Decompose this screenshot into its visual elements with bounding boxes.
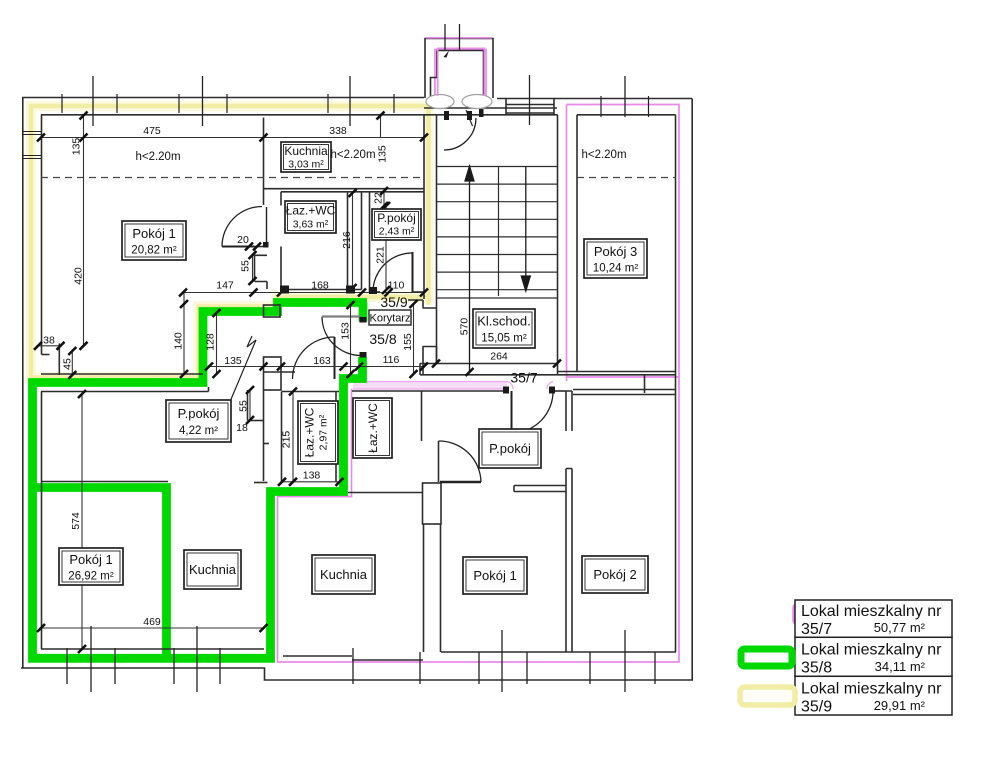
svg-text:Lokal mieszkalny nr: Lokal mieszkalny nr <box>801 681 942 698</box>
svg-text:116: 116 <box>383 354 400 366</box>
svg-text:10,24 m²: 10,24 m² <box>593 263 639 275</box>
svg-text:20,82 m²: 20,82 m² <box>131 245 177 257</box>
svg-text:3,63 m²: 3,63 m² <box>293 219 329 231</box>
svg-text:34,11 m²: 34,11 m² <box>875 659 926 674</box>
svg-text:Lokal mieszkalny nr: Lokal mieszkalny nr <box>801 642 942 659</box>
svg-text:26,92 m²: 26,92 m² <box>68 571 114 583</box>
svg-text:138: 138 <box>303 470 321 482</box>
svg-text:135: 135 <box>71 138 83 156</box>
svg-text:153: 153 <box>340 322 352 340</box>
svg-text:215: 215 <box>281 431 293 449</box>
svg-text:Pokój 1: Pokój 1 <box>132 226 175 241</box>
svg-text:221: 221 <box>375 246 387 264</box>
svg-text:338: 338 <box>329 125 347 137</box>
svg-text:P.pokój: P.pokój <box>377 211 415 225</box>
svg-text:Kl.schod.: Kl.schod. <box>477 314 530 329</box>
svg-text:P.pokój: P.pokój <box>489 441 531 456</box>
svg-text:Łaz.+WC: Łaz.+WC <box>286 204 336 218</box>
svg-text:147: 147 <box>216 280 234 292</box>
svg-text:55: 55 <box>240 260 252 272</box>
svg-text:128: 128 <box>205 333 217 351</box>
svg-text:Kuchnia: Kuchnia <box>320 567 368 582</box>
svg-text:Pokój 2: Pokój 2 <box>593 567 636 582</box>
svg-text:15,05 m²: 15,05 m² <box>481 333 527 345</box>
svg-text:20: 20 <box>237 234 249 246</box>
svg-text:h<2.20m: h<2.20m <box>330 149 375 161</box>
svg-text:163: 163 <box>313 355 331 367</box>
svg-text:22: 22 <box>373 192 385 204</box>
svg-text:216: 216 <box>341 231 353 249</box>
svg-text:h<2.20m: h<2.20m <box>581 149 626 161</box>
svg-text:Pokój 1: Pokój 1 <box>473 568 516 583</box>
svg-text:155: 155 <box>402 333 414 351</box>
svg-text:Korytarz: Korytarz <box>370 313 411 325</box>
svg-text:168: 168 <box>311 280 329 292</box>
svg-text:38: 38 <box>43 335 55 347</box>
svg-text:35/7: 35/7 <box>510 370 537 386</box>
svg-text:35/8: 35/8 <box>369 331 396 347</box>
svg-text:574: 574 <box>70 512 82 530</box>
svg-text:Kuchnia: Kuchnia <box>284 144 328 158</box>
svg-text:29,91 m²: 29,91 m² <box>874 698 926 713</box>
svg-text:140: 140 <box>173 332 185 350</box>
svg-text:4,22 m²: 4,22 m² <box>179 425 218 437</box>
svg-text:45: 45 <box>62 358 74 370</box>
svg-text:Pokój 1: Pokój 1 <box>69 552 112 567</box>
svg-text:18: 18 <box>236 422 248 434</box>
svg-text:2,43 m²: 2,43 m² <box>379 226 415 238</box>
svg-text:469: 469 <box>143 616 161 628</box>
svg-text:35/9: 35/9 <box>801 699 832 716</box>
svg-text:35/9: 35/9 <box>380 294 407 310</box>
svg-text:110: 110 <box>388 280 405 292</box>
svg-text:264: 264 <box>490 351 508 363</box>
svg-text:55: 55 <box>238 400 250 412</box>
svg-text:3,03 m²: 3,03 m² <box>288 159 324 171</box>
svg-text:475: 475 <box>143 125 161 137</box>
svg-text:50,77 m²: 50,77 m² <box>874 620 926 635</box>
svg-text:Kuchnia: Kuchnia <box>189 562 237 577</box>
svg-text:P.pokój: P.pokój <box>178 406 220 421</box>
svg-text:Lokal mieszkalny nr: Lokal mieszkalny nr <box>801 603 942 620</box>
svg-text:570: 570 <box>459 318 471 336</box>
svg-text:Łaz.+WC: Łaz.+WC <box>366 403 380 453</box>
svg-text:135: 135 <box>377 145 389 163</box>
svg-text:135: 135 <box>224 355 242 367</box>
svg-text:Łaz.+WC: Łaz.+WC <box>303 407 317 457</box>
svg-text:35/8: 35/8 <box>801 660 832 677</box>
svg-text:420: 420 <box>73 267 85 285</box>
svg-text:h<2.20m: h<2.20m <box>135 151 180 163</box>
svg-text:35/7: 35/7 <box>801 621 832 638</box>
svg-text:Pokój 3: Pokój 3 <box>594 244 637 259</box>
svg-text:2,97 m²: 2,97 m² <box>318 414 330 450</box>
